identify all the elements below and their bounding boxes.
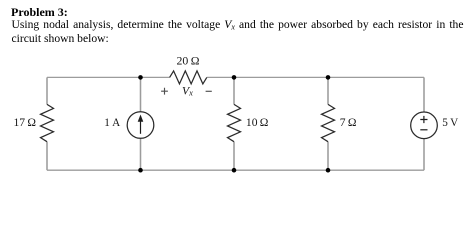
- wire: current-source branch: [140, 77, 142, 170]
- voltage source V1 circle: [411, 112, 438, 139]
- wire: top rail right segment: [207, 76, 424, 78]
- svg-text:1 A: 1 A: [104, 117, 120, 129]
- wire: top rail left segment: [47, 76, 170, 78]
- current source I1 circle: [127, 112, 154, 139]
- node dot bottom at current source: [138, 168, 143, 173]
- current source arrow: [140, 120, 142, 134]
- node dot bottom at 7-ohm: [326, 168, 331, 173]
- svg-text:5 V: 5 V: [442, 117, 458, 129]
- svg-text:10 Ω: 10 Ω: [246, 116, 269, 129]
- node dot top at 10-ohm: [232, 75, 237, 80]
- resistor 17-ohm: [41, 104, 54, 141]
- voltage source minus sign: [420, 129, 427, 131]
- node dot top at current source: [138, 75, 143, 80]
- label minus (Vx): [206, 90, 212, 92]
- wire: 7-ohm branch (above): [327, 77, 329, 104]
- wire: 10-ohm branch (below): [233, 142, 235, 171]
- resistor 20-ohm: [170, 71, 207, 84]
- label plus (Vx): [161, 88, 168, 95]
- wire: bottom rail: [47, 169, 424, 171]
- node dot bottom at 10-ohm: [232, 168, 237, 173]
- problem statement line 2: [12, 33, 109, 45]
- svg-text:20 Ω: 20 Ω: [177, 53, 200, 67]
- problem statement line 1: [12, 19, 464, 31]
- voltage source plus sign: [420, 116, 427, 123]
- node dot top at 7-ohm: [326, 75, 331, 80]
- svg-text:Vx: Vx: [182, 84, 193, 97]
- wire: left branch (below 17-ohm): [46, 142, 48, 171]
- problem title: [11, 6, 68, 18]
- wire: left branch (above 17-ohm): [46, 77, 48, 104]
- wire: right branch (voltage source): [423, 77, 425, 170]
- svg-text:7 Ω: 7 Ω: [340, 116, 357, 129]
- svg-text:17 Ω: 17 Ω: [13, 116, 36, 129]
- resistor 10-ohm: [228, 104, 241, 141]
- wire: 7-ohm branch (below): [327, 142, 329, 171]
- resistor 7-ohm: [322, 104, 335, 141]
- wire: 10-ohm branch (above): [233, 77, 235, 104]
